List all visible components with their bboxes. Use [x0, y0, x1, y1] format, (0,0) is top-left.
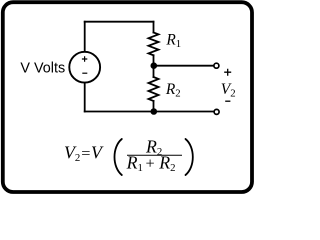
- svg-text:=: =: [81, 143, 90, 162]
- svg-text:V Volts: V Volts: [20, 61, 65, 77]
- svg-text:+: +: [146, 154, 155, 173]
